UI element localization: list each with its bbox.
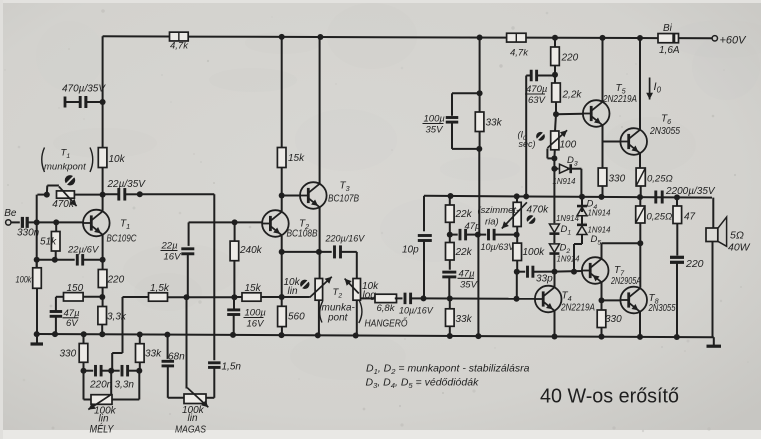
- wire D1 chain upper: [553, 169, 555, 224]
- svg-text:2N3055: 2N3055: [649, 126, 680, 137]
- note diode functions line 1: [366, 363, 530, 377]
- wire T3 base: [282, 195, 300, 197]
- svg-text:(szimmet-: (szimmet-: [478, 205, 520, 216]
- capacitor C 33p: [517, 266, 558, 285]
- trimmer P 100 (Io set): [547, 114, 576, 172]
- potentiometer P 100k lin MAGAS (treble): [175, 388, 208, 436]
- transistor Q T1 BC109C: [83, 210, 137, 245]
- resistor R 22k (NFB lower): [446, 243, 473, 270]
- svg-text:330: 330: [609, 174, 626, 185]
- svg-text:220: 220: [561, 53, 579, 64]
- svg-text:1N914: 1N914: [588, 209, 612, 218]
- terminal +60V: [712, 35, 747, 47]
- capacitor C 10u/16V: [395, 293, 434, 316]
- wire ground reference line: [475, 149, 481, 339]
- wire input node to T1 base: [28, 219, 84, 225]
- svg-text:33p: 33p: [536, 274, 553, 285]
- node input bias vertical: [34, 195, 40, 268]
- label szimmetria: [478, 205, 520, 228]
- capacitor C 100u/35V: [423, 93, 480, 149]
- capacitor C 220u/16V: [325, 234, 366, 279]
- wire T4 base line: [423, 296, 535, 302]
- label T1 munkpont: [42, 148, 93, 173]
- wire emitter network horizontal: [37, 259, 75, 261]
- svg-text:560: 560: [288, 312, 305, 323]
- svg-text:sec): sec): [519, 139, 536, 149]
- svg-text:16V: 16V: [247, 319, 266, 330]
- svg-text:1N914: 1N914: [557, 255, 581, 264]
- resistor R 0.25ohm (lower): [636, 197, 673, 288]
- diode D5 second 1N914: [571, 216, 611, 275]
- wire T1 emitter down: [100, 235, 106, 270]
- wire T5 collector: [602, 38, 604, 102]
- svg-text:MAGAS: MAGAS: [175, 424, 206, 436]
- svg-text:MÉLY: MÉLY: [90, 423, 115, 436]
- diode D4 1N914: [577, 197, 611, 218]
- svg-text:HANGERŐ: HANGERŐ: [365, 316, 408, 330]
- transistor Q T6 2N3055: [620, 114, 680, 155]
- capacitor C 22u/6V (T1 emitter): [67, 245, 103, 266]
- wire T4 collector: [554, 272, 556, 288]
- wire T4 emitter: [552, 311, 558, 339]
- svg-text:470k: 470k: [52, 199, 75, 210]
- screwdriver adjust mark (470k): [65, 175, 75, 185]
- svg-text:22µ/6V: 22µ/6V: [67, 245, 100, 256]
- wire tone feedback from T1 collector: [213, 194, 215, 360]
- svg-text:lin: lin: [188, 413, 198, 424]
- resistor R 33k (NFB to gnd): [446, 299, 473, 339]
- resistor R 4.7k (right, driver feed): [507, 33, 530, 58]
- svg-text:0,25Ω: 0,25Ω: [647, 212, 673, 223]
- wire emitter bypass horizontal: [282, 251, 332, 253]
- svg-text:D3​, D4​, D5​ = védődiódák: D3​, D4​, D5​ = védődiódák: [366, 377, 480, 391]
- svg-text:2N3055: 2N3055: [648, 303, 676, 314]
- potentiometer P 10k log HANGERO (volume): [345, 279, 380, 339]
- svg-text:470k: 470k: [527, 205, 550, 216]
- svg-text:220: 220: [685, 258, 704, 270]
- svg-text:10µ/16V: 10µ/16V: [399, 306, 434, 316]
- svg-text:330: 330: [605, 314, 622, 325]
- resistor R 0.25ohm (upper): [636, 168, 673, 197]
- svg-text:+60V: +60V: [720, 35, 748, 47]
- capacitor C 10u/63V: [479, 229, 519, 252]
- label Io sec: [518, 130, 536, 150]
- svg-text:40W: 40W: [728, 242, 751, 254]
- resistor R 6.8k: [375, 294, 397, 314]
- capacitor C 470u/63V (bootstrap): [525, 70, 558, 197]
- svg-text:pont: pont: [327, 313, 349, 324]
- wire 1.5k to 22u node: [168, 296, 235, 298]
- wire T5 base: [556, 113, 583, 116]
- svg-text:BC109C: BC109C: [107, 233, 137, 245]
- potentiometer P 100k lin MELY (bass): [84, 371, 140, 436]
- svg-text:470µ/35V: 470µ/35V: [62, 84, 106, 95]
- wire T8 emitter to ground: [637, 312, 643, 340]
- capacitor C 47p: [450, 221, 481, 240]
- wire fuse to +60V terminal: [679, 37, 713, 39]
- svg-text:47: 47: [684, 212, 696, 223]
- svg-text:220µ/16V: 220µ/16V: [325, 234, 366, 244]
- resistor R 150 (emitter filter): [56, 283, 102, 311]
- transistor Q T3 BC107B: [300, 181, 359, 209]
- screwdriver adjust mark (10k lin): [300, 280, 309, 289]
- resistor R 330 (T5 emitter): [598, 168, 625, 197]
- svg-text:22k: 22k: [455, 209, 473, 220]
- svg-text:lin: lin: [288, 286, 298, 297]
- wire T5 emitter / T6 base: [603, 125, 621, 168]
- svg-text:51k: 51k: [40, 237, 57, 248]
- capacitor C 470u/35V (supply decoupling): [62, 84, 106, 109]
- svg-text:Bi: Bi: [663, 23, 673, 34]
- svg-text:4,7k: 4,7k: [510, 48, 529, 59]
- capacitor C 2200u/35V (output): [656, 186, 716, 204]
- svg-text:2,2k: 2,2k: [562, 90, 583, 101]
- capacitor C 47u/35V: [442, 269, 478, 299]
- svg-text:63V: 63V: [528, 95, 547, 106]
- wire +60V top rail right segment: [526, 35, 658, 41]
- wire T2 base line: [189, 219, 263, 225]
- svg-text:15k: 15k: [245, 283, 262, 294]
- capacitor C 47u/6V: [50, 308, 80, 337]
- svg-text:35V: 35V: [426, 125, 445, 136]
- wire bass branch down: [112, 297, 148, 371]
- svg-text:16V: 16V: [164, 252, 183, 263]
- capacitor C 10p (feedback): [402, 196, 432, 302]
- svg-text:Be: Be: [4, 208, 17, 219]
- svg-text:1N914: 1N914: [553, 177, 577, 186]
- svg-text:BC108B: BC108B: [287, 228, 318, 240]
- wire T7 emitter / T8 base node: [599, 282, 621, 310]
- svg-text:3,3k: 3,3k: [107, 312, 127, 323]
- svg-text:40 W-os erősítő: 40 W-os erősítő: [540, 385, 679, 408]
- svg-text:22µ: 22µ: [161, 241, 179, 252]
- svg-text:33k: 33k: [145, 349, 162, 360]
- svg-text:100: 100: [560, 140, 577, 151]
- svg-text:1N914: 1N914: [556, 214, 580, 223]
- svg-text:220: 220: [107, 275, 125, 286]
- capacitor C 3.3n: [111, 365, 142, 391]
- wire coupling node to feedback line: [140, 193, 215, 195]
- capacitor C 22u/16V (tone to base): [161, 222, 195, 300]
- resistor R 22k (NFB upper): [446, 196, 473, 243]
- resistor R 2.2k: [552, 83, 583, 117]
- resistor R 47 (Zobel): [673, 198, 696, 256]
- wire T2 emitter down: [279, 236, 285, 306]
- svg-text:10p: 10p: [402, 245, 419, 256]
- svg-text:470µ: 470µ: [526, 84, 548, 95]
- diode D3 1N914: [553, 155, 582, 197]
- resistor R 15k (gain set): [242, 283, 262, 301]
- svg-text:2N2219A: 2N2219A: [560, 303, 595, 314]
- svg-text:220n: 220n: [89, 380, 113, 391]
- svg-text:0,25Ω: 0,25Ω: [647, 174, 673, 185]
- svg-text:22k: 22k: [455, 247, 473, 258]
- svg-text:10µ/63V: 10µ/63V: [481, 242, 516, 252]
- svg-text:D1​, D2​ = munkapont - stabili: D1​, D2​ = munkapont - stabilizálásra: [366, 363, 530, 377]
- current arrow Io: [646, 78, 661, 100]
- trimmer P 10k lin (T2 munkapont): [284, 277, 332, 339]
- diode D2 1N914: [549, 243, 580, 272]
- svg-text:100k: 100k: [16, 275, 32, 285]
- resistor R 33k (ripple filter): [475, 38, 502, 152]
- diode D1 1N914: [549, 214, 579, 243]
- capacitor C 220n: [84, 365, 115, 391]
- svg-text:15k: 15k: [288, 153, 305, 164]
- wire T6 emitter: [639, 153, 641, 168]
- resistor R 240k (T2 base bias): [230, 222, 263, 300]
- resistor R 51k (T1 base divider): [40, 222, 60, 262]
- resistor R 4.7k (left, collector feed): [170, 32, 190, 51]
- wire 15k collector line: [281, 37, 283, 148]
- wire T3 emitter down: [316, 207, 322, 278]
- capacitor C 100u/16V: [227, 297, 266, 338]
- capacitor C 1.5n: [206, 362, 241, 398]
- svg-text:6V: 6V: [66, 318, 79, 329]
- svg-text:100µ: 100µ: [424, 114, 446, 125]
- wire +60V top rail left segment: [103, 35, 170, 37]
- svg-text:47p: 47p: [465, 221, 481, 232]
- resistor R 1.5k: [149, 283, 170, 301]
- transistor Q T5 2N2219A: [583, 83, 637, 127]
- svg-text:150: 150: [67, 283, 84, 294]
- svg-text:munkpont: munkpont: [44, 162, 86, 173]
- svg-text:100µ: 100µ: [245, 308, 267, 319]
- svg-text:2200µ/35V: 2200µ/35V: [665, 186, 716, 197]
- svg-text:240k: 240k: [239, 245, 263, 256]
- wire output line: [424, 193, 712, 200]
- fuse Bi 1.6A: [658, 23, 680, 56]
- resistor R 100k (symmetry): [513, 243, 545, 299]
- svg-text:1,5n: 1,5n: [222, 362, 242, 373]
- resistor R 100k (input return): [16, 260, 42, 337]
- terminal Be input: [4, 208, 20, 225]
- title 40 W-os erosito: [540, 385, 679, 408]
- svg-text:22µ/35V: 22µ/35V: [107, 179, 147, 190]
- svg-text:33k: 33k: [456, 314, 473, 325]
- speaker 5ohm 40W: [706, 198, 751, 338]
- svg-text:1,6A: 1,6A: [659, 45, 680, 56]
- trimmer P 470k (T1 bias): [37, 186, 102, 210]
- transistor Q T7 2N2905A (PNP): [582, 257, 641, 287]
- wire T6 collector: [639, 38, 641, 130]
- svg-text:68n: 68n: [168, 352, 185, 363]
- wire ground bottom rail: [37, 334, 714, 337]
- svg-text:100k: 100k: [523, 247, 546, 258]
- wire T2 collector to node: [281, 196, 283, 212]
- svg-text:BC107B: BC107B: [328, 193, 359, 205]
- svg-text:2N2905A: 2N2905A: [610, 276, 641, 287]
- svg-text:10k: 10k: [109, 154, 126, 165]
- wire T7 collector to T8 collector: [602, 243, 641, 259]
- svg-text:4,7k: 4,7k: [170, 41, 189, 52]
- svg-text:6,8k: 6,8k: [377, 303, 396, 314]
- screwdriver adjust mark (Io set): [536, 132, 545, 141]
- resistor R 33k (bass): [136, 331, 163, 370]
- svg-text:2N2219A: 2N2219A: [602, 94, 637, 105]
- wire T7 base: [555, 270, 583, 273]
- wire 15k wiper feed: [234, 296, 309, 298]
- note diode functions line 2: [366, 377, 480, 391]
- wire volume to 6.8k: [361, 297, 376, 299]
- wire +60V top rail middle segment: [188, 34, 506, 41]
- capacitor C 68n: [162, 332, 186, 398]
- capacitor C 22u/35V (interstage coupling): [103, 179, 147, 201]
- label T2 munkapont: [320, 287, 362, 324]
- label HANGERO: [365, 316, 408, 330]
- svg-text:33k: 33k: [486, 118, 503, 129]
- resistor R 10k (T1 collector load): [98, 148, 125, 168]
- resistor R 15k (T2/T3 collector load): [277, 148, 305, 199]
- resistor R 220 (T1 emitter): [98, 270, 124, 307]
- trimmer P 470k szimmetria: [502, 196, 549, 243]
- transistor Q T2 BC108B: [262, 210, 317, 239]
- capacitor C 220 (Zobel): [670, 257, 704, 340]
- resistor R 560 (T2 emitter): [278, 306, 306, 338]
- ground (output): [707, 337, 722, 346]
- svg-text:330: 330: [60, 349, 77, 360]
- transistor Q T8 2N3055: [620, 287, 675, 314]
- svg-text:5Ω: 5Ω: [730, 230, 744, 242]
- wire top rail down to 10k: [100, 36, 106, 147]
- svg-text:ria): ria): [485, 217, 499, 228]
- wire 10k to T1 collector node: [100, 168, 106, 211]
- ground (input): [31, 334, 44, 344]
- resistor R 3.3k (T1 emitter to gnd): [98, 307, 127, 338]
- screwdriver adjust mark (470k symmetry): [527, 215, 536, 224]
- svg-text:1,5k: 1,5k: [150, 283, 170, 294]
- resistor R 330 (bass shelf): [60, 331, 88, 373]
- wire treble wiper line: [186, 297, 188, 388]
- svg-text:3,3n: 3,3n: [115, 380, 135, 391]
- resistor R 330 (T7 emitter): [597, 310, 622, 340]
- transistor Q T4 2N2219A: [535, 286, 595, 314]
- capacitor C 330n input: [17, 217, 40, 239]
- resistor R 220 (driver load): [551, 38, 579, 83]
- svg-text:35V: 35V: [460, 280, 479, 291]
- wire T3 collector to rail: [319, 37, 321, 184]
